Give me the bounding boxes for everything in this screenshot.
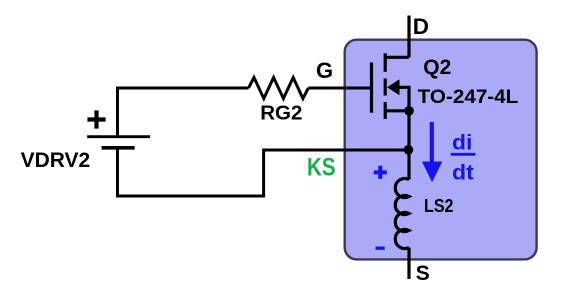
current arrow di/dt bbox=[422, 122, 442, 182]
wire drain (to D) bbox=[407, 16, 410, 58]
inductor LS2 bbox=[395, 178, 409, 248]
package box TO-247-4L bbox=[345, 40, 537, 260]
wire source to inductor bbox=[407, 111, 410, 180]
svg-text:LS2: LS2 bbox=[424, 195, 454, 216]
svg-text:VDRV2: VDRV2 bbox=[21, 149, 91, 172]
battery plus sign bbox=[87, 110, 105, 128]
wire inductor to S bbox=[407, 248, 410, 280]
polarity minus (inductor) bbox=[376, 247, 385, 250]
svg-text:D: D bbox=[413, 14, 429, 39]
drain stub bbox=[385, 56, 409, 59]
wire top (battery + to resistor) bbox=[118, 88, 249, 136]
wire bottom (battery - to KS) bbox=[118, 148, 406, 196]
junction dot source bbox=[404, 106, 414, 116]
polarity plus (inductor) bbox=[374, 166, 387, 179]
body arrow bbox=[387, 79, 399, 95]
transistor Q2 (N-MOSFET) bbox=[372, 53, 414, 119]
battery bottom plate bbox=[102, 146, 135, 150]
svg-text:Q2: Q2 bbox=[423, 56, 451, 79]
svg-text:dt: dt bbox=[452, 161, 474, 185]
svg-text:TO-247-4L: TO-247-4L bbox=[418, 86, 519, 108]
node KS junction dot bbox=[404, 145, 414, 155]
svg-text:di: di bbox=[452, 130, 472, 154]
wire gate (resistor to MOSFET gate) bbox=[308, 87, 370, 90]
svg-text:RG2: RG2 bbox=[260, 102, 302, 125]
gate bar bbox=[370, 63, 373, 113]
source stub bbox=[385, 109, 409, 112]
svg-text:S: S bbox=[416, 262, 430, 285]
battery top plate bbox=[87, 135, 150, 138]
channel segment top bbox=[384, 53, 387, 72]
channel segment middle bbox=[384, 78, 387, 95]
svg-text:KS: KS bbox=[307, 154, 336, 182]
battery source VDRV2 bbox=[87, 110, 150, 147]
resistor RG2 bbox=[249, 78, 309, 99]
svg-text:G: G bbox=[316, 58, 333, 83]
fraction bar bbox=[451, 153, 476, 156]
channel segment bottom bbox=[384, 102, 387, 119]
